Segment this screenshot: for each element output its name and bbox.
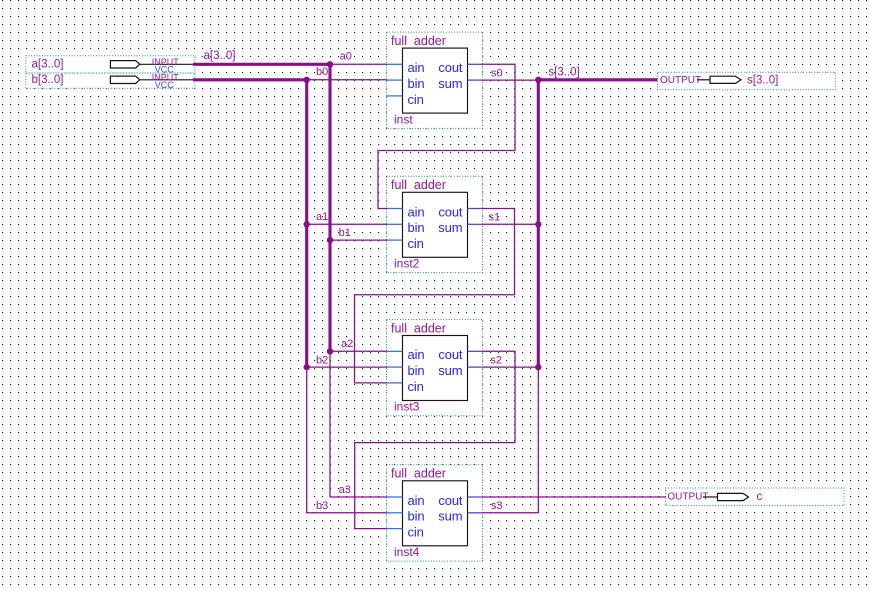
svg-text:a0: a0 — [340, 51, 352, 63]
svg-text:b[3..0]: b[3..0] — [32, 74, 64, 86]
svg-text:a3: a3 — [339, 484, 351, 496]
svg-text:VCC: VCC — [155, 80, 175, 90]
wire sum s1 to bus s — [483, 223, 539, 225]
output pin c — [667, 491, 762, 503]
svg-text:s1: s1 — [489, 211, 501, 223]
svg-text:c: c — [757, 491, 763, 503]
svg-text:cout: cout — [438, 204, 463, 219]
full_adder inst4 selection box — [387, 465, 483, 561]
svg-text:cout: cout — [438, 60, 463, 75]
wire bus a[3..0] horizontal — [193, 63, 330, 66]
svg-text:sum: sum — [438, 363, 462, 378]
wire b1 tap to inst2 cin — [330, 239, 387, 241]
input pin a[3..0] — [32, 57, 194, 75]
wire b3 tap to inst4 bin — [307, 512, 387, 514]
wire bus s thin continuation to inst4 sum — [537, 367, 539, 513]
svg-text:cin: cin — [408, 92, 424, 107]
svg-text:a2: a2 — [341, 338, 353, 350]
svg-text:inst: inst — [394, 112, 413, 126]
junction b2 — [304, 364, 310, 370]
svg-text:cin: cin — [408, 379, 424, 394]
svg-text:s3: s3 — [491, 500, 503, 512]
svg-text:bin: bin — [408, 509, 425, 524]
junction s1 — [535, 221, 541, 227]
svg-text:inst3: inst3 — [394, 400, 420, 414]
svg-text:ain: ain — [408, 60, 425, 75]
svg-text:cin: cin — [408, 236, 424, 251]
junction b0 — [304, 77, 310, 83]
full_adder symbol inst — [387, 34, 483, 126]
svg-text:ain: ain — [408, 204, 425, 219]
wire carry cout inst3 -> cin inst4 — [355, 351, 515, 528]
svg-text:s[3..0]: s[3..0] — [548, 66, 579, 78]
full_adder inst3 selection box — [387, 320, 483, 416]
wire a0 tap to inst ain — [330, 63, 387, 65]
output pin s[3..0] — [660, 75, 778, 87]
svg-text:a[3..0]: a[3..0] — [204, 50, 236, 62]
input pin b[3..0] — [32, 73, 194, 91]
svg-text:s0: s0 — [491, 67, 503, 79]
svg-text:full adder: full adder — [391, 467, 446, 481]
wire b2 tap to inst3 bin — [307, 366, 387, 368]
svg-text:ain: ain — [408, 493, 425, 508]
wire bus b thin continuation to inst4 — [306, 367, 308, 513]
wire a3 tap to inst4 ain — [330, 496, 387, 498]
svg-text:cin: cin — [408, 525, 424, 540]
svg-text:sum: sum — [438, 220, 462, 235]
full_adder inst selection box — [387, 32, 483, 128]
wire a1 tap to inst2 bin — [307, 223, 387, 225]
input pin b[3..0] selection box — [26, 73, 195, 88]
svg-text:full adder: full adder — [391, 321, 446, 335]
junction s bus corner — [535, 77, 541, 83]
wire bus a vertical (thick) — [328, 63, 331, 352]
full_adder symbol inst2 — [387, 178, 483, 270]
full_adder inst2 selection box — [387, 176, 483, 272]
svg-text:cout: cout — [438, 347, 463, 362]
svg-text:bin: bin — [408, 220, 425, 235]
input pin a[3..0] selection box — [26, 56, 195, 73]
svg-text:ain: ain — [408, 347, 425, 362]
wire sum s3 to bus s — [483, 512, 539, 514]
svg-text:OUTPUT: OUTPUT — [667, 492, 708, 503]
svg-text:bin: bin — [408, 76, 425, 91]
svg-text:inst2: inst2 — [394, 257, 420, 271]
svg-text:a1: a1 — [316, 211, 328, 223]
svg-text:b2: b2 — [316, 354, 328, 366]
svg-text:s2: s2 — [490, 354, 502, 366]
junction a2 — [327, 348, 333, 354]
output pin c selection box — [666, 488, 845, 506]
svg-text:b1: b1 — [339, 227, 351, 239]
svg-text:bin: bin — [408, 363, 425, 378]
junction a0 — [327, 61, 333, 67]
wire a2 tap to inst3 ain — [330, 350, 387, 352]
svg-text:inst4: inst4 — [394, 545, 420, 559]
svg-text:b0: b0 — [316, 66, 328, 78]
wire sum s2 to bus s — [483, 366, 539, 368]
junction a1 — [304, 221, 310, 227]
output pin s[3..0] selection box — [658, 72, 836, 89]
full_adder symbol inst4 — [387, 467, 483, 559]
wire carry cout inst -> ain inst2 — [378, 64, 515, 208]
svg-text:full adder: full adder — [391, 178, 446, 192]
junction b1 — [327, 237, 333, 243]
wire bus b[3..0] horizontal — [193, 78, 307, 81]
wire bus a thin continuation to inst4 — [329, 351, 331, 497]
svg-text:a[3..0]: a[3..0] — [32, 59, 64, 71]
svg-text:sum: sum — [438, 76, 462, 91]
svg-text:OUTPUT: OUTPUT — [660, 75, 701, 86]
wire b0 tap to inst bin — [307, 79, 387, 81]
svg-text:b3: b3 — [316, 500, 328, 512]
wire cout inst4 to output c — [483, 496, 667, 498]
full_adder symbol inst3 — [387, 321, 483, 413]
svg-text:full adder: full adder — [391, 34, 446, 48]
junction s2 — [535, 364, 541, 370]
wire bus s vertical (thick) — [537, 78, 540, 367]
wire bus b vertical (thick) — [305, 78, 308, 367]
svg-text:sum: sum — [438, 509, 462, 524]
svg-text:s[3..0]: s[3..0] — [747, 75, 778, 87]
svg-text:cout: cout — [438, 493, 463, 508]
wire sum s0 to bus s — [483, 79, 539, 81]
wire carry cout inst2 -> cin inst3 — [355, 209, 515, 383]
wire bus s[3..0] horizontal to output — [537, 78, 658, 81]
